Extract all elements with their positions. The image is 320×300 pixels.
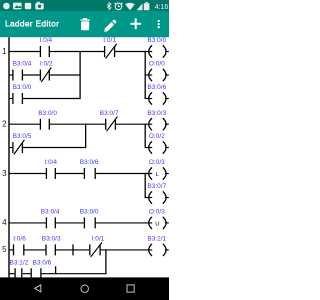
branch wire to junction (50, 74, 80, 76)
rung 2 wire to coil B3:0/3 (116, 123, 152, 125)
svg-text:5: 5 (2, 245, 7, 254)
svg-text:O:0/3: O:0/3 (149, 159, 165, 166)
svg-text:B3:0/7: B3:0/7 (100, 110, 119, 117)
coil B3:0/6 (147, 84, 168, 105)
svg-text:B3:1/2: B3:1/2 (10, 259, 29, 266)
branch wire from rail to contact B3:0/0 (9, 98, 12, 100)
rung 3 output branch junction (144, 173, 146, 198)
svg-text:B3:0/4: B3:0/4 (13, 61, 32, 68)
rung 5 wire from rail to contact I:0/6 (9, 249, 13, 251)
rung 1 wire to coil B3:0/0 (115, 51, 152, 53)
rung 1 output branch junction (144, 51, 146, 99)
alarm clock icon (115, 3, 123, 10)
branch wire to coil B3:0/6 (145, 98, 152, 100)
wifi icon (125, 3, 135, 11)
svg-text:B3:2/1: B3:2/1 (147, 236, 166, 243)
NC contact I:0/2 (40, 61, 53, 82)
svg-text:B3:0/0: B3:0/0 (13, 84, 32, 91)
left power rail (8, 37, 10, 277)
svg-text:2: 2 (2, 120, 7, 129)
rung 2 input branch junction (85, 124, 87, 149)
notification photo icon (13, 3, 22, 10)
contact B3:0/3 (42, 236, 61, 256)
branch wire to junction (23, 98, 80, 100)
notification square icon (25, 3, 31, 9)
svg-text:B3:0/3: B3:0/3 (147, 110, 166, 117)
bluetooth icon (107, 3, 111, 10)
app title Ladder Editor (5, 18, 59, 28)
coil B3:0/0 (147, 37, 168, 58)
rung 4 number (2, 218, 7, 227)
contact I:0/6 (13, 236, 26, 256)
nav back icon (35, 285, 41, 292)
svg-text:Ladder Editor: Ladder Editor (5, 18, 59, 28)
navigation bar background (0, 277, 169, 300)
svg-text:I:0/6: I:0/6 (13, 236, 26, 243)
notification dot icon (3, 3, 10, 10)
contact B3:0/6 branch (31, 259, 51, 279)
branch wire to contact I:0/2 (23, 74, 40, 76)
rung 1 wire from rail to contact I:0/4 (9, 51, 40, 53)
notification camera icon (35, 2, 43, 10)
rung 5 wire to coil B3:2/1 (101, 249, 153, 251)
rung 5 number (2, 245, 7, 254)
branch wire to contact B3:0/6 (23, 273, 31, 275)
contact B3:0/6 rung 3 (80, 159, 99, 179)
contact B3:0/0 rung 2 (38, 110, 57, 130)
contact B3:0/0 (13, 84, 32, 104)
svg-text:I:0/4: I:0/4 (44, 159, 57, 166)
branch wire to coil B3:0/7 (145, 197, 152, 199)
svg-text:B3:0/6: B3:0/6 (80, 159, 99, 166)
svg-text:B3:0/4: B3:0/4 (41, 209, 60, 216)
rung 2 wire from rail to contact B3:0/0 (9, 123, 40, 125)
contact B3:0/0 rung 4 (80, 209, 99, 229)
svg-text:4:16: 4:16 (155, 4, 169, 11)
rung 1 wire to contact I:0/1 (50, 51, 104, 53)
branch wire to coil O:0/0 (145, 74, 152, 76)
rung 3 wire from rail to contact I:0/4 (9, 173, 46, 175)
rung 1 input branch junction (79, 51, 81, 99)
cellular signal icon (137, 3, 143, 10)
svg-text:I:0/2: I:0/2 (40, 61, 53, 68)
unlatch coil O:0/3 (149, 209, 169, 230)
coil B3:0/7 (147, 183, 168, 204)
svg-text:L: L (156, 172, 160, 178)
svg-text:B3:0/0: B3:0/0 (38, 110, 57, 117)
contact B3:0/4 (13, 61, 32, 81)
status time 4:16 (155, 4, 169, 11)
edit pencil icon (104, 20, 116, 32)
battery icon (144, 2, 150, 10)
svg-text:O:0/0: O:0/0 (149, 61, 165, 68)
svg-text:B3:0/5: B3:0/5 (13, 133, 32, 140)
rung 2 output branch junction (144, 124, 146, 149)
add plus icon (130, 18, 141, 29)
branch wire from rail to contact B3:0/4 (9, 74, 12, 76)
coil B3:0/3 (147, 110, 168, 131)
contact I:0/4 (40, 37, 53, 57)
rung 5 wire to contact I:0/1 (56, 249, 89, 251)
svg-text:B3:0/6: B3:0/6 (33, 259, 52, 266)
rung 3 wire to contact B3:0/6 (56, 173, 84, 175)
rung 3 number (2, 169, 7, 178)
svg-text:B3:0/0: B3:0/0 (80, 209, 99, 216)
svg-text:1: 1 (2, 47, 7, 56)
svg-text:B3:0/0: B3:0/0 (147, 37, 166, 44)
rung 4 wire to contact B3:0/0 (56, 222, 84, 224)
rung 2 wire to contact B3:0/7 (50, 123, 105, 125)
branch wire to junction (42, 273, 106, 275)
branch wire to coil O:0/2 (145, 147, 152, 149)
contact B3:1/2 (10, 259, 29, 279)
svg-text:O:0/2: O:0/2 (149, 133, 165, 140)
nav home icon (81, 285, 89, 293)
coil B3:2/1 (147, 236, 168, 257)
contact I:0/4 rung 3 (44, 159, 57, 179)
coil O:0/0 (149, 61, 169, 82)
svg-text:O:0/3: O:0/3 (149, 209, 165, 216)
coil O:0/2 (149, 133, 169, 154)
svg-text:U: U (155, 221, 159, 227)
NC contact B3:0/5 (13, 133, 32, 154)
rung 4 wire to unlatch coil (96, 222, 152, 224)
rung 1 number (2, 47, 7, 56)
branch wire from rail to contact B3:0/5 (9, 147, 12, 149)
NC contact B3:0/7 (100, 110, 119, 131)
rung 5 junction bar (72, 244, 74, 255)
svg-text:3: 3 (2, 169, 7, 178)
nav recents icon (127, 285, 134, 292)
rung 5 wire to contact B3:0/3 (24, 249, 46, 251)
svg-text:I:0/4: I:0/4 (40, 37, 53, 44)
branch junction bar (55, 266, 57, 274)
overflow menu icon (158, 20, 160, 29)
svg-text:B3:0/6: B3:0/6 (147, 84, 166, 91)
status bar background (0, 0, 169, 11)
svg-text:B3:0/7: B3:0/7 (147, 183, 166, 190)
NC contact I:0/1 (103, 37, 116, 58)
rung 3 wire to latch coil (96, 173, 152, 175)
latch coil O:0/3 (149, 159, 169, 180)
rung 2 number (2, 120, 7, 129)
svg-text:I:0/1: I:0/1 (92, 236, 105, 243)
contact B3:0/4 rung 4 (41, 209, 60, 229)
branch wire from rail to contact B3:1/2 (9, 273, 14, 275)
rung 4 wire from rail to contact B3:0/4 (9, 222, 46, 224)
svg-text:B3:0/3: B3:0/3 (42, 236, 61, 243)
delete trash icon (80, 18, 89, 30)
NC contact I:0/1 rung 5 (90, 236, 105, 257)
svg-text:I:0/1: I:0/1 (103, 37, 116, 44)
svg-text:4: 4 (2, 218, 7, 227)
app bar background (0, 11, 169, 38)
branch wire to junction (23, 147, 86, 149)
rung 5 branch junction (105, 249, 107, 274)
